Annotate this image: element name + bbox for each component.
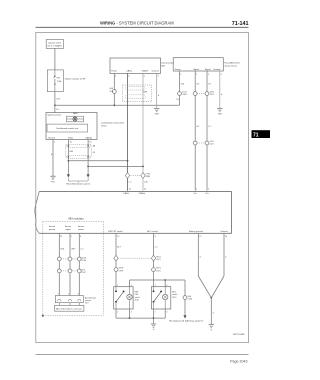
svg-text:3: 3 — [166, 311, 167, 313]
svg-text:signal: signal — [65, 229, 71, 231]
svg-text:G9#1: G9#1 — [210, 91, 215, 93]
svg-text:2C41: 2C41 — [182, 91, 187, 93]
svg-text:Background lighting system: Background lighting system — [169, 320, 203, 323]
svg-text:Power: Power — [111, 70, 117, 73]
svg-text:(IG 1 or START): (IG 1 or START) — [48, 44, 63, 47]
svg-text:Indoor fusebox 15 I/F: Indoor fusebox 15 I/F — [65, 78, 86, 81]
svg-text:ABS: ABS — [73, 112, 78, 115]
svg-text:4: 4 — [208, 74, 209, 76]
svg-text:77#B: 77#B — [145, 173, 150, 175]
svg-text:4.5: 4.5 — [93, 152, 96, 154]
svg-text:CAN-L: CAN-L — [123, 192, 130, 195]
svg-text:ABS modulator: ABS modulator — [68, 218, 84, 221]
svg-text:power: power — [78, 229, 84, 231]
svg-text:GRY: GRY — [71, 248, 76, 250]
svg-text:G9#1: G9#1 — [156, 268, 161, 270]
svg-text:Z010: Z010 — [135, 299, 139, 301]
svg-text:Signal: Signal — [193, 69, 199, 71]
svg-text:C#04: C#04 — [82, 260, 87, 262]
svg-text:2: 2 — [117, 311, 118, 313]
svg-text:CF10: CF10 — [101, 126, 107, 128]
svg-text:13: 13 — [129, 188, 131, 190]
svg-text:L-W: L-W — [144, 182, 148, 184]
svg-text:Connector/pin: Connector/pin — [161, 61, 175, 64]
svg-text:3: 3 — [158, 76, 159, 78]
svg-text:2: 2 — [180, 74, 181, 76]
svg-text:4: 4 — [115, 76, 116, 78]
svg-text:1: 1 — [155, 285, 156, 287]
svg-text:1: 1 — [117, 285, 118, 287]
svg-text:speed sensor: speed sensor — [225, 64, 238, 67]
svg-text:7.5A: 7.5A — [57, 80, 62, 83]
svg-text:ground: ground — [49, 229, 55, 231]
svg-text:2: 2 — [208, 188, 209, 190]
svg-text:15B-I: 15B-I — [68, 138, 73, 140]
svg-text:1: 1 — [196, 188, 197, 190]
svg-text:C2#1: C2#1 — [210, 141, 215, 143]
svg-text:Ground: Ground — [221, 230, 229, 233]
svg-text:5: 5 — [144, 76, 145, 78]
svg-text:Sensor: Sensor — [65, 226, 72, 228]
svg-text:3: 3 — [131, 311, 132, 313]
svg-text:G06: G06 — [109, 88, 113, 90]
svg-text:Combination instrument: Combination instrument — [101, 122, 124, 125]
svg-text:C9#1: C9#1 — [210, 94, 215, 96]
svg-text:ACC: ACC — [172, 291, 177, 294]
svg-text:ESP-/ST switch: ESP-/ST switch — [108, 230, 123, 233]
svg-text:5: 5 — [71, 236, 72, 238]
svg-text:Battery ground: Battery ground — [189, 230, 203, 233]
svg-text:switch: switch — [172, 293, 177, 296]
svg-text:switch: switch — [135, 296, 140, 299]
svg-text:CAN-H: CAN-H — [139, 192, 146, 195]
svg-text:6: 6 — [128, 76, 129, 78]
svg-text:CAN-H: CAN-H — [142, 70, 149, 73]
svg-text:4: 4 — [131, 285, 132, 287]
svg-text:Dashboard control unit: Dashboard control unit — [56, 127, 78, 130]
svg-text:Sensor: Sensor — [49, 226, 56, 228]
svg-text:G04: G04 — [188, 296, 192, 298]
svg-text:Ignition switch: Ignition switch — [49, 41, 62, 44]
svg-text:71-141: 71-141 — [232, 21, 249, 27]
svg-text:12: 12 — [199, 236, 201, 238]
svg-text:C06: C06 — [109, 91, 112, 93]
svg-text:8: 8 — [155, 236, 156, 238]
svg-text:C9#1: C9#1 — [156, 259, 161, 261]
svg-text:16: 16 — [89, 142, 91, 144]
svg-text:4#8B: 4#8B — [145, 176, 150, 178]
svg-text:ACC switch: ACC switch — [147, 230, 159, 233]
svg-text:G#4: G#4 — [82, 269, 86, 271]
svg-text:CAN-A: CAN-A — [85, 137, 92, 140]
svg-text:Acceleration: Acceleration — [85, 296, 96, 299]
svg-text:C204: C204 — [188, 299, 193, 301]
svg-text:Ground: Ground — [152, 70, 160, 73]
svg-text:15: 15 — [70, 142, 72, 144]
svg-text:Power: Power — [175, 68, 181, 71]
svg-text:Ground: Ground — [48, 137, 56, 140]
svg-text:Rear ABS wheel: Rear ABS wheel — [225, 61, 241, 64]
svg-text:1: 1 — [196, 74, 197, 76]
svg-text:Microillumination system: Microillumination system — [67, 183, 91, 186]
svg-text:2: 2 — [155, 311, 156, 313]
svg-text:14: 14 — [225, 236, 227, 238]
svg-text:6: 6 — [80, 236, 81, 238]
svg-text:G9#1: G9#1 — [156, 256, 161, 258]
svg-text:C9#1: C9#1 — [156, 271, 161, 273]
svg-text:1: 1 — [54, 142, 55, 144]
svg-text:WIRING - SYSTEM CIRCUIT DIAGRA: WIRING - SYSTEM CIRCUIT DIAGRAM — [100, 20, 174, 25]
svg-text:CAN-L: CAN-L — [126, 70, 133, 73]
svg-text:Page 2043: Page 2043 — [230, 359, 247, 363]
svg-text:G9#F: G9#F — [119, 268, 125, 270]
svg-text:Ch-: Ch- — [194, 193, 198, 195]
svg-text:Acceleration sensor: Acceleration sensor — [56, 308, 82, 311]
svg-text:13: 13 — [117, 236, 119, 238]
svg-text:4: 4 — [166, 285, 167, 287]
svg-text:Ignition power: Ignition power — [48, 113, 62, 116]
svg-text:G#02: G#02 — [82, 257, 87, 259]
svg-text:Signal: Signal — [205, 69, 211, 71]
svg-text:3: 3 — [221, 74, 222, 76]
svg-text:14: 14 — [144, 188, 146, 190]
svg-text:71: 71 — [253, 133, 259, 139]
svg-text:Sensor: Sensor — [78, 226, 85, 228]
svg-text:Ground: Ground — [213, 68, 221, 71]
svg-text:10: 10 — [60, 236, 62, 238]
svg-text:C461: C461 — [182, 94, 187, 96]
svg-text:SW71-0080: SW71-0080 — [233, 334, 245, 336]
svg-text:IL B: IL B — [56, 99, 60, 101]
